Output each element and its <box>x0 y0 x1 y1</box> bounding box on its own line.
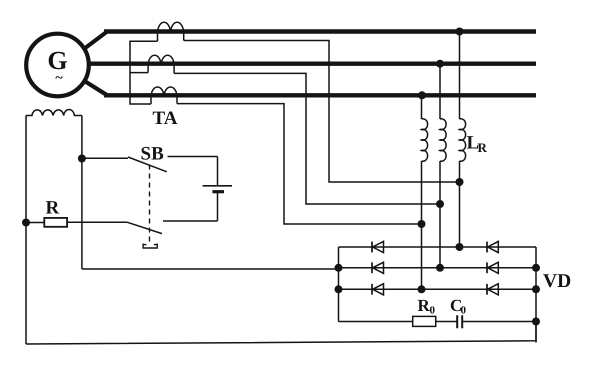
wire TA secondary 1 to node D3 <box>184 41 460 183</box>
label R0 <box>418 296 436 317</box>
wire to bridge row 2 <box>82 268 339 270</box>
diode VD4 (row1 right) <box>487 241 498 252</box>
svg-text:SB: SB <box>141 144 165 165</box>
label C0 <box>450 296 467 317</box>
switch SB pole 1 <box>82 157 218 172</box>
label L_R <box>467 133 488 156</box>
transformer TA winding 1 (top phase) <box>158 22 184 41</box>
switch SB manual actuator <box>143 244 157 249</box>
node bridge row2 / L_R2 <box>436 264 444 272</box>
wire TA secondary 2 to node D2 <box>174 73 440 204</box>
wire phase B (middle, thick) <box>89 62 537 66</box>
resistor R <box>26 218 67 227</box>
node bridge row3 right <box>532 285 540 293</box>
svg-text:~: ~ <box>55 71 63 86</box>
bridge row 2 wire <box>339 267 537 269</box>
switch SB linkage (dashed) <box>149 165 151 242</box>
transformer TA winding 3 (bottom phase) <box>151 87 177 104</box>
node L_R1 bottom junction <box>418 220 426 228</box>
battery GB <box>203 157 232 222</box>
diode VD5 (row2 right) <box>487 262 498 273</box>
wire phase A tap down to L_R3 <box>459 32 461 248</box>
node bridge row2 right <box>532 264 540 272</box>
wire field right lead down <box>81 116 83 270</box>
bridge row 3 wire <box>339 288 537 290</box>
svg-text:TA: TA <box>153 108 178 129</box>
wire TA secondary 3 to node D1 <box>177 104 422 224</box>
node phase A tap <box>456 28 464 36</box>
node phase B tap <box>436 60 444 68</box>
node L_R3 bottom junction <box>456 178 464 186</box>
node SB branch <box>78 155 86 163</box>
diode VD6 (row3 right) <box>487 284 498 295</box>
diode VD2 (row2 left) <box>372 262 384 273</box>
inductor L_R2 <box>440 119 446 161</box>
node bridge bottom right <box>532 318 540 326</box>
bridge bottom rail <box>339 321 537 323</box>
inductor L_R3 <box>460 119 466 161</box>
svg-text:0: 0 <box>430 305 436 317</box>
node R branch <box>22 219 30 227</box>
wire phase A (top, thick) <box>85 32 537 49</box>
resistor R0 <box>413 316 436 326</box>
node L_R2 bottom junction <box>436 200 444 208</box>
generator G <box>26 34 89 97</box>
diode VD1 (row1 left) <box>372 241 384 252</box>
inductor L_R1 <box>422 119 428 161</box>
node bridge row3 / L_R1 <box>418 285 426 293</box>
bridge right rail <box>535 247 537 343</box>
switch SB pole 2 <box>67 221 218 234</box>
transformer TA winding 2 (middle phase) <box>148 55 174 73</box>
node bridge row2 left <box>335 264 343 272</box>
bridge left rail <box>338 247 340 322</box>
svg-text:R: R <box>46 198 60 219</box>
bridge row 1 wire <box>339 246 537 248</box>
node bridge row1 / L_R3 <box>456 243 464 251</box>
svg-text:VD: VD <box>543 271 571 292</box>
capacitor C0 <box>457 315 462 328</box>
svg-text:0: 0 <box>461 305 467 317</box>
wire phase B tap down to L_R2 <box>439 64 441 268</box>
wire bottom return <box>26 321 536 344</box>
wire phase C tap down to L_R1 <box>421 95 423 289</box>
node bridge row3 left <box>335 285 343 293</box>
wire phase C (bottom, thick) <box>85 81 537 95</box>
diode VD3 (row3 left) <box>372 284 384 295</box>
field winding of G <box>26 109 82 115</box>
wire field left lead down to bottom return <box>25 116 27 345</box>
svg-text:R: R <box>478 140 488 155</box>
node phase C tap <box>418 91 426 99</box>
wire TA secondary common bus <box>130 41 158 104</box>
